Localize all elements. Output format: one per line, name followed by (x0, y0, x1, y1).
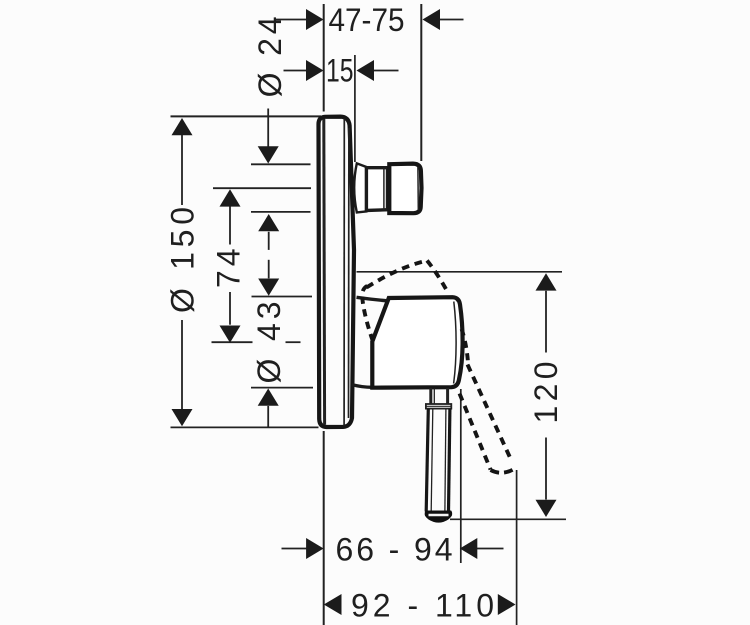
dimension 66-94 arrows (282, 548, 307, 550)
valve body outline (372, 297, 462, 388)
svg-text:15: 15 (326, 53, 354, 89)
valve body collar top curve (357, 297, 387, 301)
svg-text:92 - 110: 92 - 110 (351, 588, 494, 624)
svg-text:66 - 94: 66 - 94 (336, 532, 453, 568)
valve body collar bottom curve (352, 385, 373, 388)
dashed lever arc right flank (427, 261, 449, 294)
lever shaft (426, 409, 428, 512)
dimension dia150 line and arrows (181, 135, 183, 205)
dimension 15 arrows (284, 70, 307, 72)
dimension 120 line and arrows (545, 291, 547, 353)
wire: extension line x=516.6 for 92-110 (516, 470, 518, 625)
dashed handle lower edge (460, 394, 491, 470)
escutcheon plate face line 2 (348, 128, 350, 418)
wire: top horizontal extension line A (y=116.4) (171, 115, 322, 117)
dashed handle upper edge (468, 365, 511, 458)
lever ring collar (426, 404, 451, 409)
wire: tick for dia 24 (y=164.3) (251, 163, 311, 165)
dimension 74 line and arrows (229, 207, 231, 245)
knob inner line near right (417, 167, 419, 210)
wire: extension line x=323.7 bottom segment (323, 431, 325, 625)
wire: right horizontal extension line (y=271.8) (357, 271, 563, 273)
lever neck below body (429, 388, 432, 404)
svg-text:47-75: 47-75 (329, 2, 405, 38)
wire: extension line right of 47-75 (x=421.3) (420, 4, 422, 161)
knob dome between plate and cylinder (354, 163, 366, 212)
escutcheon plate face line 1 (343, 119, 345, 426)
svg-text:Ø 24: Ø 24 (252, 16, 288, 97)
wire: extension line right of 15 (x=354.9) (354, 55, 356, 162)
knob cylinder inner line (383, 168, 385, 210)
dimension small-dia up arrow (267, 406, 269, 427)
wire: line F bottom (y=427.4) (171, 426, 319, 428)
wire: extension line left of 47-75 (x=323.7 top) (323, 4, 325, 112)
wire: extension line B for 74 (y=188.2) (213, 187, 311, 189)
valve body inner right line (454, 302, 457, 384)
svg-text:43: 43 (251, 302, 287, 342)
dashed lever arc left flank (367, 261, 428, 288)
wire: line D bottom of 74 (y=342.2, broken by 43 text) (212, 341, 253, 343)
wire: line C bottom of 43 (y=296.5) (252, 296, 313, 298)
dimension 47-75 arrows (276, 19, 307, 21)
escutcheon plate inner back line (322, 119, 326, 425)
wire: bottom right horizontal line (y=519.3) (450, 518, 566, 520)
knob cylinder small (366, 168, 387, 211)
dimension 43 line and arrows (268, 232, 270, 250)
dashed lever (raised position) lower edge near plate (362, 285, 373, 341)
wire: tick top of 43 (y=211.9) (251, 211, 311, 213)
dashed segment along body bulge (462, 329, 469, 367)
escutcheon plate outer contour (319, 117, 355, 427)
knob main body (389, 164, 421, 214)
wire: extension line x=460.8 for 66-94 (460, 389, 462, 563)
lever bottom cap (425, 511, 453, 523)
dashed handle end cap (491, 469, 515, 473)
svg-text:Ø 150: Ø 150 (165, 207, 201, 313)
svg-text:120: 120 (528, 362, 564, 424)
dimension 92-110 arrows (324, 594, 342, 615)
dimension dia24 down arrow (267, 109, 269, 148)
wire: line E top of small dia (y=387.6) (251, 387, 313, 389)
svg-text:74: 74 (211, 249, 247, 289)
svg-text:Ø: Ø (251, 359, 287, 384)
